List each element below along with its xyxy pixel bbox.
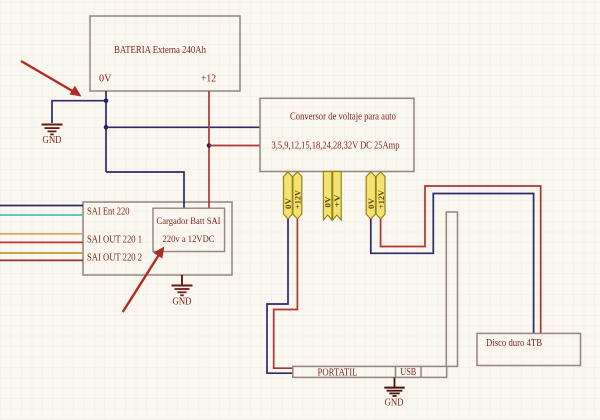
wire teal sai bbox=[0, 214, 83, 216]
wire red P3 to disco duro bbox=[381, 186, 541, 333]
svg-text:USB: USB bbox=[400, 367, 416, 378]
cable duct thin box bbox=[446, 212, 457, 366]
wire gold sai out2 bbox=[0, 252, 83, 254]
supply flag P2 0V bbox=[323, 172, 333, 221]
wire navy battery 0V down bbox=[105, 91, 107, 172]
wire navy P1 to portatil bbox=[267, 219, 293, 373]
wire red to converter bbox=[209, 145, 260, 147]
wire navy bus to converter bbox=[106, 126, 260, 128]
svg-text:Cargador Batt SAI: Cargador Batt SAI bbox=[157, 217, 221, 227]
svg-text:SAI Ent 220: SAI Ent 220 bbox=[87, 207, 130, 218]
sai outer box bbox=[83, 202, 232, 275]
svg-text:PORTATIL: PORTATIL bbox=[318, 368, 358, 379]
cargador box bbox=[153, 208, 225, 251]
wire dark red sai out2 bbox=[0, 259, 83, 261]
wire tan sai out1 bbox=[0, 233, 83, 235]
svg-text:GND: GND bbox=[173, 297, 192, 308]
wire navy sai input bbox=[0, 205, 83, 207]
svg-text:0V: 0V bbox=[99, 74, 112, 85]
disco duro box bbox=[477, 333, 581, 365]
wire navy down to cargador bbox=[106, 172, 184, 208]
svg-text:+12V: +12V bbox=[293, 189, 303, 209]
junction at 0V wire bbox=[104, 98, 109, 103]
svg-text:Disco duro 4TB: Disco duro 4TB bbox=[486, 338, 542, 349]
svg-text:3,5,9,12,15,18,24,28,32V DC 25: 3,5,9,12,15,18,24,28,32V DC 25Amp bbox=[272, 141, 400, 152]
supply flag P2 +V bbox=[332, 172, 342, 221]
svg-text:0V: 0V bbox=[366, 197, 376, 209]
svg-text:SAI OUT 220 2: SAI OUT 220 2 bbox=[87, 253, 142, 264]
svg-text:SAI OUT 220 1: SAI OUT 220 1 bbox=[87, 235, 142, 246]
svg-text:BATERIA Externa 240Ah: BATERIA Externa 240Ah bbox=[114, 45, 207, 56]
supply flag P3 0V bbox=[366, 172, 376, 219]
svg-text:+V: +V bbox=[332, 193, 342, 207]
converter box Conversor de voltaje bbox=[260, 98, 414, 171]
annotation arrow 1 bbox=[21, 61, 82, 97]
annotation arrow 2 bbox=[123, 247, 165, 313]
ground GND usb bbox=[384, 377, 404, 408]
supply flag P1 +12V bbox=[293, 172, 303, 219]
svg-text:Conversor de voltaje para auto: Conversor de voltaje para auto bbox=[290, 112, 396, 123]
supply flag P3 +12V bbox=[376, 172, 386, 219]
portatil box bbox=[293, 366, 447, 378]
svg-text:0V: 0V bbox=[283, 197, 293, 209]
ground GND1 bbox=[42, 125, 63, 147]
wire red P1 to portatil bbox=[274, 219, 298, 368]
wire red sai out1 bbox=[0, 241, 83, 243]
wire red battery +12 down to cargador bbox=[208, 91, 210, 208]
svg-text:+12V: +12V bbox=[376, 189, 386, 209]
svg-text:GND: GND bbox=[385, 398, 404, 409]
wire navy to ground bbox=[52, 101, 106, 123]
battery box BATERIA Externa 240Ah bbox=[90, 16, 240, 91]
junction on red wire bbox=[207, 143, 212, 148]
svg-text:GND: GND bbox=[43, 135, 62, 146]
wire navy P3 to disco duro bbox=[371, 194, 534, 334]
junction node on navy bus bbox=[104, 125, 109, 130]
ground GND cargador bbox=[172, 275, 193, 308]
svg-text:+12: +12 bbox=[201, 74, 216, 85]
svg-text:220v a 12VDC: 220v a 12VDC bbox=[163, 235, 215, 245]
supply flag P1 0V bbox=[283, 172, 293, 219]
